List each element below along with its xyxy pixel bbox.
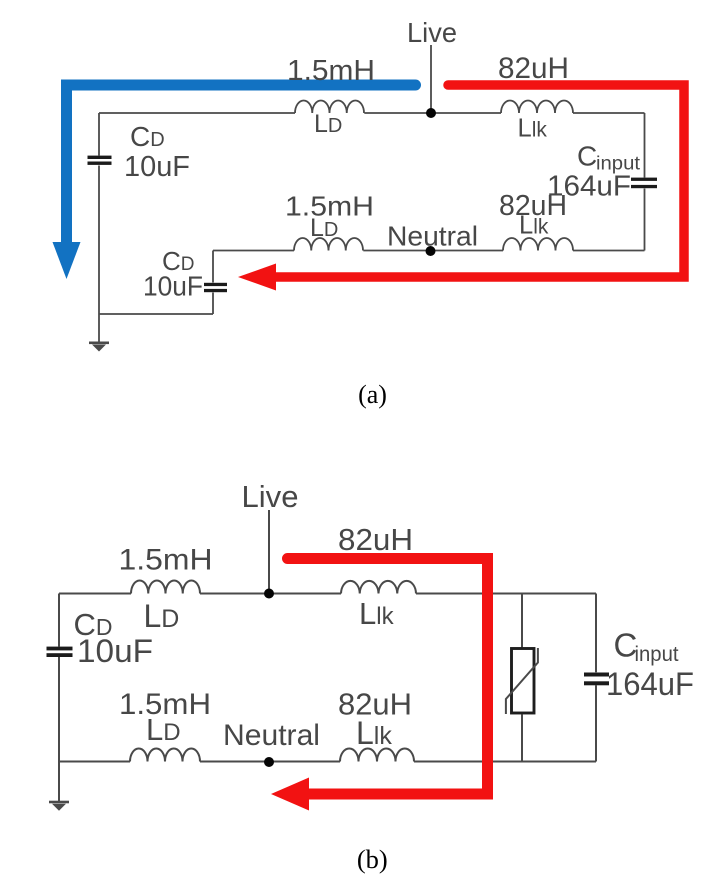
svg-text:82uH: 82uH — [338, 522, 413, 557]
svg-text:164uF: 164uF — [547, 171, 631, 203]
svg-text:Llk: Llk — [518, 115, 548, 143]
svg-text:1.5mH: 1.5mH — [119, 544, 213, 577]
svg-text:LD: LD — [310, 214, 338, 242]
svg-text:Live: Live — [407, 17, 457, 48]
svg-text:input: input — [635, 643, 679, 666]
svg-text:(a): (a) — [358, 380, 387, 409]
svg-text:Live: Live — [242, 479, 299, 514]
svg-text:C: C — [577, 141, 597, 172]
svg-text:10uF: 10uF — [77, 633, 153, 669]
svg-text:LD: LD — [314, 110, 342, 138]
svg-text:1.5mH: 1.5mH — [119, 688, 211, 721]
svg-text:10uF: 10uF — [143, 271, 203, 302]
svg-text:82uH: 82uH — [498, 52, 569, 85]
svg-text:Neutral: Neutral — [387, 221, 478, 252]
svg-text:1.5mH: 1.5mH — [285, 191, 374, 222]
svg-text:Neutral: Neutral — [223, 719, 320, 752]
svg-text:Llk: Llk — [519, 212, 549, 240]
svg-text:(b): (b) — [357, 844, 388, 874]
svg-text:1.5mH: 1.5mH — [287, 55, 375, 87]
svg-text:82uH: 82uH — [338, 687, 412, 722]
svg-text:10uF: 10uF — [124, 151, 190, 183]
svg-text:164uF: 164uF — [606, 666, 694, 702]
